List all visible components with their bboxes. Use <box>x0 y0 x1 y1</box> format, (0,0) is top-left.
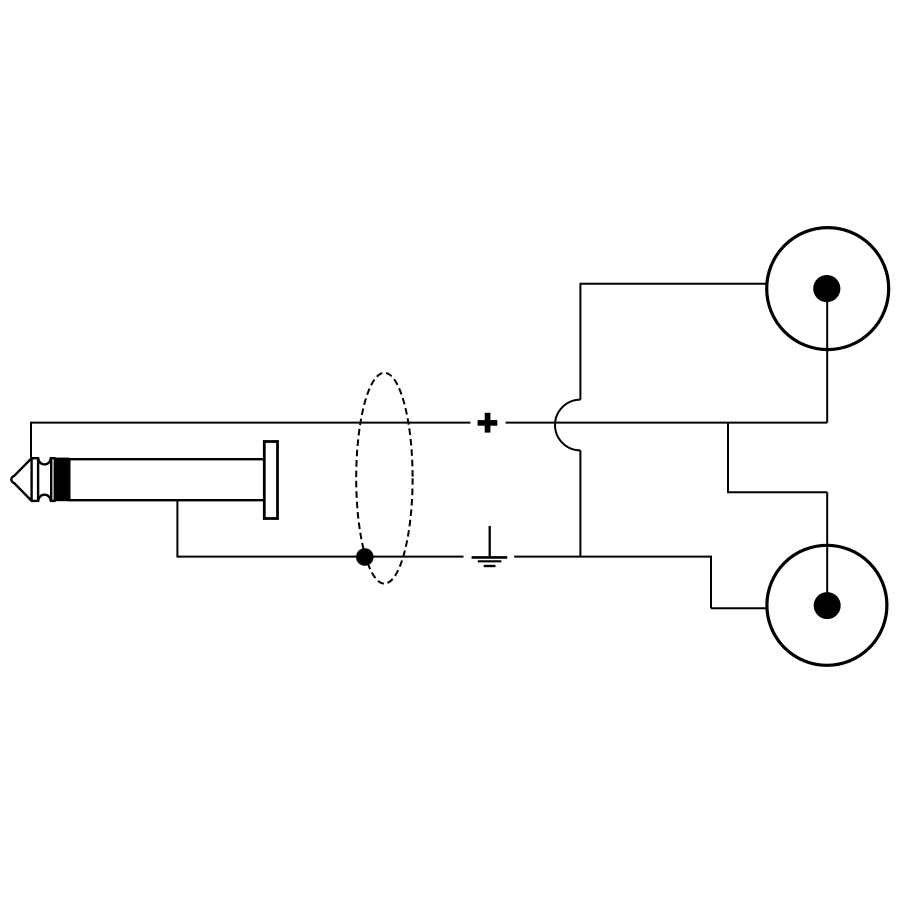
RCA connector bottom center pin <box>814 592 841 619</box>
jack plug second ring line <box>37 458 39 501</box>
wire sleeve vertical from barrel <box>176 500 178 557</box>
wire sleeve horizontal to bottom RCA shell <box>711 607 766 609</box>
wire sleeve horizontal (right of ground symbol) <box>514 556 712 558</box>
wire tip top-left horizontal (left of + sign) <box>31 422 470 424</box>
jack plug tip base line <box>30 458 32 501</box>
wire hop (semicircle jump over + wire) <box>555 400 580 451</box>
ground symbol <box>472 526 508 566</box>
wire branch vertical down to bottom RCA pin <box>826 492 828 605</box>
wire junction branch vertical at x=728 <box>727 423 729 493</box>
plus sign (tip / hot conductor) <box>478 413 498 433</box>
jack plug insulator black band <box>55 458 70 502</box>
wire top RCA shell horizontal <box>580 283 767 285</box>
RCA connector bottom shell <box>767 545 887 665</box>
wire tip vertical drop to plug tip <box>30 422 32 458</box>
wire sleeve horizontal (left of ground symbol) <box>177 556 464 558</box>
jack plug third ring line <box>50 458 52 501</box>
jack plug flange <box>264 442 277 519</box>
jack plug J1 tip cone and collar outline <box>11 458 55 501</box>
wire sleeve vertical jog down <box>710 556 712 609</box>
jack plug sleeve barrel <box>69 459 264 500</box>
shield junction dot <box>356 548 374 566</box>
cable shield ellipse (dashed) <box>356 373 412 584</box>
wire shell vertical upper segment <box>579 283 581 400</box>
RCA connector top shell <box>767 228 889 350</box>
wire top RCA pin vertical down to + wire <box>826 289 828 423</box>
RCA connector top center pin <box>813 275 840 302</box>
wire shell vertical lower segment <box>579 450 581 556</box>
wire branch horizontal to x=827 <box>727 491 827 493</box>
wire tip top horizontal (right of + sign) <box>506 422 828 424</box>
